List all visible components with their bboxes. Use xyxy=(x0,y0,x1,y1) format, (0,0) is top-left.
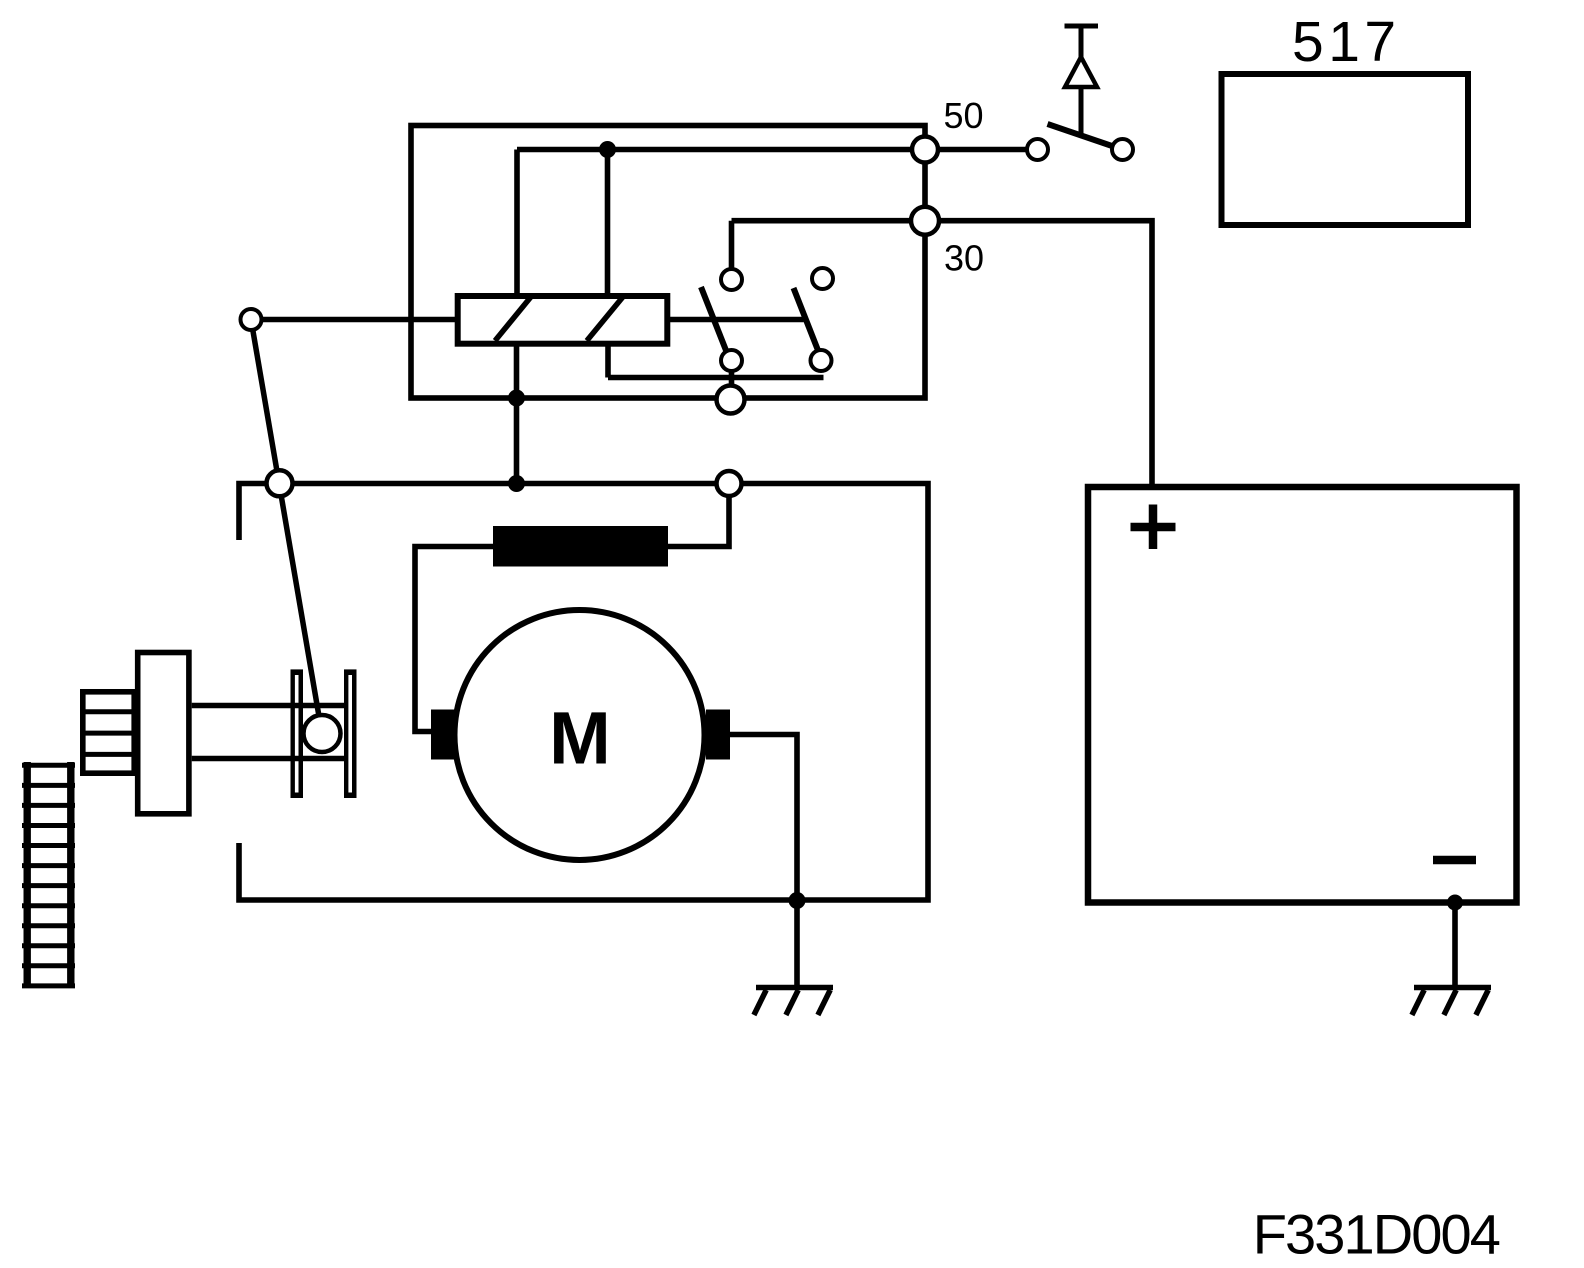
ground G1 stroke a xyxy=(754,990,766,1015)
ring gear rack right rail xyxy=(67,762,74,988)
ignition switch left circle xyxy=(1027,139,1048,160)
wire terminal to field winding xyxy=(668,484,729,547)
wire terminal30 to battery xyxy=(732,221,1153,487)
relay bottom terminal circle xyxy=(717,386,745,414)
lever pivot circle xyxy=(267,470,293,496)
ring gear rack left rail xyxy=(24,762,31,988)
pinion gear tooth line3 xyxy=(83,752,134,757)
starter motor housing outline xyxy=(239,484,928,901)
contact2 upper circle xyxy=(812,268,833,289)
battery B+ box xyxy=(1088,487,1517,903)
battery plus sign xyxy=(1131,505,1176,550)
terminal 30 circle xyxy=(911,207,939,235)
pinion shaft bottom xyxy=(192,756,345,762)
junction dot rail50 xyxy=(599,141,616,158)
wire field winding to left brush xyxy=(415,547,493,732)
svg-text:50: 50 xyxy=(944,95,984,136)
junction dot motor ground xyxy=(789,892,806,909)
unit 517 box xyxy=(1222,74,1469,225)
pinion gear teeth box xyxy=(83,692,134,773)
ignition switch right circle xyxy=(1112,139,1133,160)
pinion clutch body xyxy=(138,653,189,814)
pinion gear tooth line2 xyxy=(83,731,134,736)
key symbol top bar xyxy=(1065,24,1099,29)
ground G2 stroke a xyxy=(1412,990,1424,1015)
lever top circle xyxy=(241,309,262,330)
wire coil bottom right drop xyxy=(605,344,611,378)
key symbol triangle xyxy=(1065,57,1097,87)
starter terminal circle xyxy=(717,471,742,496)
battery ground wire xyxy=(1452,903,1458,988)
pinion shaft top xyxy=(192,703,345,709)
svg-text:F331D004: F331D004 xyxy=(1253,1202,1500,1265)
ground G1 (motor) bar xyxy=(756,985,833,991)
solenoid coil (hatched box) xyxy=(458,296,668,344)
wire terminal50 rail xyxy=(517,147,1037,153)
motor M circle xyxy=(455,610,705,860)
wire contact1 lower drop xyxy=(729,361,735,400)
motor right brush xyxy=(706,710,730,760)
key symbol stem lower xyxy=(1079,87,1084,136)
wire right brush to ground xyxy=(730,735,797,988)
contact1 lower circle xyxy=(721,350,742,371)
wire coil output right xyxy=(666,317,804,323)
engagement lever xyxy=(251,320,321,729)
contact2 lower circle xyxy=(811,350,832,371)
wire lower contact rail xyxy=(608,375,824,381)
ring gear rack rungs xyxy=(22,765,75,986)
fork collar left bar xyxy=(291,669,304,798)
fork collar right bar xyxy=(344,669,357,798)
ground G2 stroke c xyxy=(1476,990,1488,1015)
motor left brush xyxy=(431,710,455,760)
svg-text:517: 517 xyxy=(1292,10,1401,74)
ignition switch blade xyxy=(1048,124,1116,147)
coil hatch 2 xyxy=(587,297,623,340)
fork pivot ball xyxy=(304,715,341,752)
ground G1 stroke c xyxy=(818,990,830,1015)
wire contact1 upper drop xyxy=(729,221,735,272)
ground G2 (battery) bar xyxy=(1414,985,1491,991)
ground G2 stroke b xyxy=(1444,990,1456,1015)
terminal 50 circle xyxy=(912,137,938,163)
junction dot relay bottom xyxy=(508,390,525,407)
junction dot battery ground xyxy=(1447,895,1463,911)
junction dot starter top rail xyxy=(508,475,525,492)
wire coil-feed left vertical xyxy=(514,150,520,300)
battery minus sign xyxy=(1433,856,1476,865)
svg-text:30: 30 xyxy=(944,237,984,278)
ground G1 stroke b xyxy=(786,990,798,1015)
contact1 upper circle xyxy=(721,269,742,290)
field winding (solid bar) xyxy=(493,526,668,567)
relay K (starter solenoid housing) box outline xyxy=(411,126,925,399)
wire coil-feed right vertical xyxy=(605,150,611,300)
contact blade2 xyxy=(794,288,822,358)
key symbol stem upper xyxy=(1079,26,1084,60)
pinion gear tooth line1 xyxy=(83,709,134,714)
wire lever to coil (y=319) xyxy=(251,317,460,323)
svg-text:M: M xyxy=(549,697,611,780)
wire coil bottom left drop to node xyxy=(514,344,520,484)
contact blade1 xyxy=(701,287,729,358)
coil hatch 1 xyxy=(495,297,531,340)
